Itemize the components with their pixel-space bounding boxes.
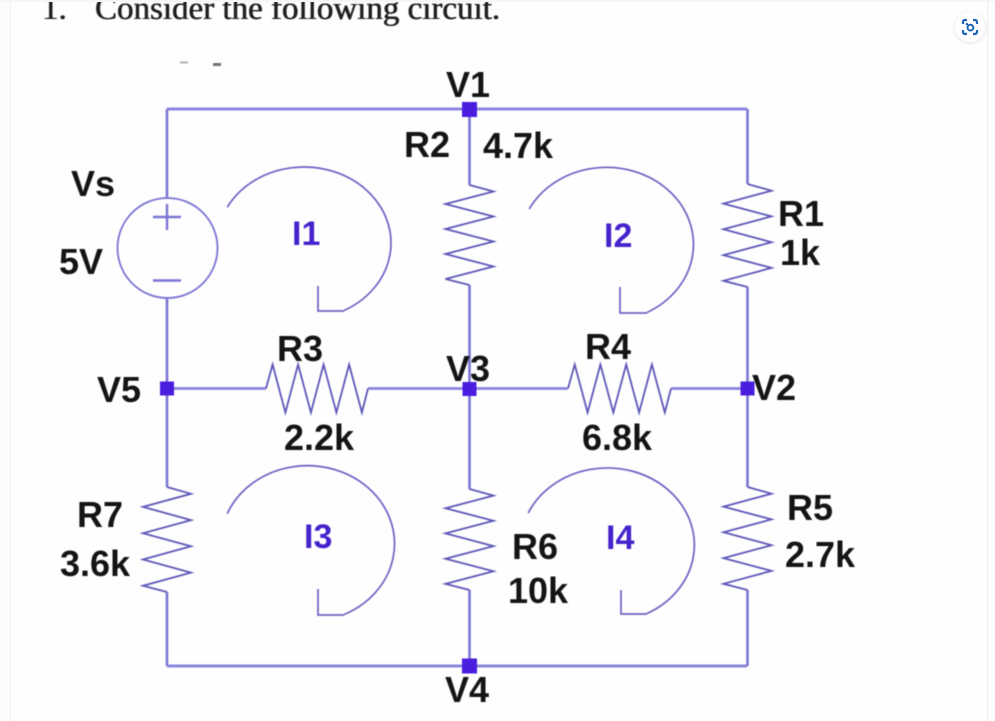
resistor R3 2.2k zigzag [266,365,368,413]
mesh current I1 arrowhead [318,286,344,311]
voltage source Vs circle [118,198,218,298]
mesh label I4 [606,521,634,555]
mesh current I3 arrowhead [318,589,344,615]
label V2 [752,370,796,406]
lens icon small dot [966,23,969,25]
label R4 [585,329,631,365]
label R7 [77,497,123,533]
lens icon center circle [968,25,974,31]
wire: right vertical R5 to bottom corner [746,590,749,666]
label 10k [508,573,568,609]
wire: middle vertical R6 to V4 [468,590,471,666]
voltage source minus sign [153,279,181,281]
label R2 [404,127,450,163]
wire: middle horizontal R4 to V2 [671,387,747,390]
title text [42,0,67,26]
stray mark dots above circuit [180,62,188,64]
screenshot lens icon button top right [955,12,985,42]
mesh current I2 arrowhead [620,287,647,313]
mesh current I1 arc [227,167,391,310]
label 6.8k [582,420,652,456]
node V2 junction square [741,382,755,396]
label 2.2k [284,420,354,456]
wire: right vertical V2 to R5 [746,389,749,487]
resistor R5 2.7k zigzag [724,487,772,590]
wire: middle vertical R2 to V3 [468,285,471,389]
resistor R2 4.7k zigzag [446,185,494,285]
mesh label I1 [292,217,320,251]
node V5 junction square [160,382,174,396]
label 3.6k [60,546,130,582]
label R1 [778,196,824,232]
mesh current I2 arc [529,167,693,312]
wire: middle horizontal V5 to R3 [167,387,266,390]
wire: middle vertical V1 to R2 [468,109,471,185]
resistor R4 6.8k zigzag [568,365,671,413]
page edge strip top [0,0,995,2]
wire: bottom horizontal rail [167,665,747,668]
resistor R1 1k zigzag [724,184,772,287]
label V5 [97,372,141,408]
label 4.7k [483,128,553,164]
label V4 [445,672,489,708]
mesh current I4 arrowhead [621,590,647,614]
wire: left vertical source to V5 [166,297,169,389]
mesh label I2 [604,219,632,253]
wire: left vertical R7 to bottom corner [166,592,169,666]
wire: right vertical corner to R1 [746,109,749,184]
page edge line right [987,0,995,721]
label V1 [446,67,490,103]
page edge shading left [0,0,11,721]
mesh label I3 [304,520,332,554]
mesh current I4 arc [528,468,694,614]
label 1k [780,235,820,271]
wire: middle vertical V3 to R6 [468,389,471,489]
label Vs [71,166,115,202]
voltage source plus sign [153,204,181,230]
label R6 [512,529,558,565]
wire: middle horizontal V3 to R4 [469,387,568,390]
label 5V [59,244,103,280]
wire: left vertical top (corner to source) [166,109,169,199]
lens icon corner brackets [963,20,977,34]
node V4 junction square [462,659,477,674]
label V3 [446,351,490,387]
label R3 [277,331,323,367]
wire: middle horizontal R3 to V3 [368,387,469,390]
mesh current I3 arc [227,466,394,615]
wire: top horizontal V1 rail [167,108,747,111]
label R5 [787,490,833,526]
node V3 junction square [463,382,477,396]
wire: left vertical V5 to R7 [166,389,169,487]
resistor R7 3.6k zigzag [143,487,191,592]
node V1 junction square [462,102,477,117]
resistor R6 10k zigzag [446,489,494,590]
label 2.7k [785,537,855,573]
wire: right vertical R1 to V2 [746,287,749,389]
